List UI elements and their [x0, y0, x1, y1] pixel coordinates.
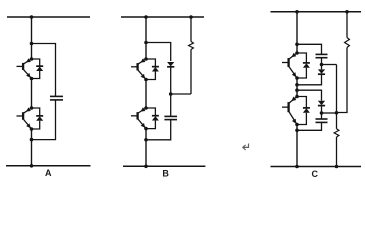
collector node of Q3	[144, 57, 148, 61]
transistor Q2	[17, 107, 32, 129]
capacitor C4	[321, 113, 323, 119]
antiparallel diode D1	[32, 59, 44, 79]
node: upper snubber return	[295, 83, 299, 87]
antiparallel diode D2	[32, 108, 44, 129]
transistor Q1	[17, 58, 32, 78]
wire: A bus Q1-to-Q2	[31, 79, 33, 109]
resistor R3	[336, 113, 338, 129]
wire: A snubber top branch	[32, 44, 56, 97]
circuit A negative rail	[6, 165, 91, 167]
svg-text:C: C	[312, 169, 319, 179]
snubber diode D9	[318, 101, 325, 105]
svg-text:B: B	[162, 168, 169, 178]
wire: A bus Q2-to-rail	[31, 129, 33, 166]
collector node of Q2	[30, 106, 34, 110]
circuit A positive rail	[7, 16, 90, 18]
node: B snubber tap	[144, 41, 148, 45]
antiparallel diode D3	[146, 59, 159, 80]
node: A snubber tap	[30, 42, 34, 46]
node: A top rail junction	[30, 15, 34, 19]
circuit B positive rail	[121, 16, 204, 18]
collector node of Q4	[144, 106, 148, 110]
snubber diode D8	[321, 65, 323, 70]
wire: B snubber bottom branch	[146, 120, 171, 140]
wire: lower snubber top branch	[297, 90, 322, 100]
wire: discharge column upper	[336, 65, 338, 114]
node: B bottom rail junction	[144, 165, 148, 169]
svg-text:A: A	[45, 168, 52, 178]
antiparallel diode D4	[146, 108, 159, 129]
wire: lower midpoint link	[322, 112, 337, 114]
wire: midpoint to discharge column	[322, 64, 337, 66]
wire: B bus Q4-to-rail	[145, 129, 147, 167]
collector node of Q1	[30, 57, 34, 61]
wire: upper snubber top branch	[297, 44, 322, 54]
wire: junction to capacitor	[170, 94, 172, 116]
node: B top rail junction	[144, 15, 148, 19]
node: C top rail junction	[295, 10, 299, 14]
node: A bottom rail junction	[30, 164, 34, 168]
wire: C bus Q6-to-rail	[296, 125, 298, 167]
emitter node of Q2	[30, 127, 34, 131]
wire: C bus rail-to-Q5	[296, 12, 298, 53]
node: discharge junction	[335, 111, 339, 115]
antiparallel diode D7	[297, 97, 310, 125]
wire: D8 cathode to emitter link	[297, 74, 322, 85]
transistor Q5	[282, 53, 297, 78]
wire: C bus Q5-to-Q6	[296, 78, 298, 97]
capacitor C1	[50, 95, 63, 97]
node: lower snubber tap	[295, 88, 299, 92]
wire: D5 cathode to junction	[170, 67, 172, 94]
node: C discharge branch bottom junction	[335, 165, 339, 169]
transistor Q4	[131, 107, 146, 128]
wire: C4 to return link	[297, 123, 322, 131]
circuit C positive rail	[271, 11, 362, 13]
transistor Q3	[131, 58, 146, 79]
resistor R1	[190, 17, 192, 42]
emitter node of Q3	[144, 78, 148, 82]
wire: B bus Q3-to-Q4	[145, 80, 147, 109]
antiparallel diode D6	[297, 53, 310, 78]
capacitor C2	[164, 115, 177, 117]
transistor Q6	[282, 97, 297, 125]
carriage-return mark	[243, 144, 249, 150]
wire: D9 to lower midpoint	[321, 106, 323, 113]
node: A snubber return junction	[30, 138, 34, 142]
wire: A snubber bottom branch	[32, 100, 56, 140]
collector node of Q5	[295, 51, 299, 55]
snubber diode D5	[167, 62, 174, 66]
node: C bottom rail junction	[295, 165, 299, 169]
node: upper snubber tap	[295, 43, 299, 47]
emitter node of Q1	[30, 77, 34, 81]
circuit C negative rail	[271, 166, 362, 168]
node: lower snubber return	[295, 129, 299, 133]
emitter node of Q6	[295, 123, 299, 127]
wire: R2 to discharge junction	[337, 48, 348, 113]
resistor R2	[346, 12, 348, 38]
capacitor C3	[316, 53, 328, 55]
wire: B bus rail-to-Q3	[145, 17, 147, 59]
node: C resistor branch top junction	[345, 10, 349, 14]
wire: junction to resistor branch	[171, 93, 191, 95]
wire: C3 to midpoint	[321, 58, 323, 65]
circuit B negative rail	[123, 165, 205, 167]
emitter node of Q5	[295, 76, 299, 80]
emitter node of Q4	[144, 127, 148, 131]
wire: R3 to bottom rail	[336, 137, 338, 167]
node: B snubber return junction	[144, 138, 148, 142]
node: B resistor branch junction	[189, 15, 193, 19]
node: B snubber mid junction	[169, 92, 173, 96]
node: lower snubber midpoint	[320, 111, 324, 115]
wire: A bus rail-to-Q1	[31, 17, 33, 59]
collector node of Q6	[295, 95, 299, 99]
node: upper snubber midpoint	[320, 63, 324, 67]
wire: B snubber diode branch	[146, 43, 171, 62]
